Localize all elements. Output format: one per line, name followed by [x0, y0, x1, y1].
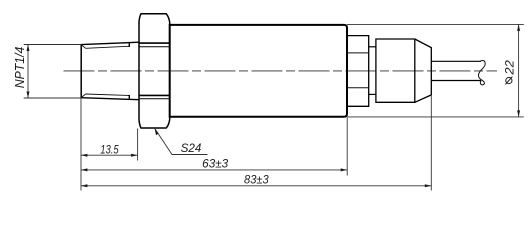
nut facet line lower thick: [139, 94, 170, 96]
gland hex facet lower: [347, 87, 369, 89]
nut facet line lower thin: [139, 98, 170, 100]
gland hex section: [347, 36, 369, 107]
NPT dimension line: [27, 45, 29, 99]
right extension line 63: [346, 118, 348, 176]
cable gland nut: [376, 39, 415, 102]
NPT arrow up: [27, 45, 30, 52]
gland neck top: [369, 46, 376, 48]
diameter symbol slash: [505, 77, 512, 85]
svg-text:S24: S24: [181, 141, 202, 155]
dim line 13.5: [81, 154, 138, 156]
centerline: [64, 70, 498, 72]
right extension line 83: [430, 95, 432, 191]
arrow 13.5 right: [131, 154, 138, 157]
nipple bottom thread end tick: [128, 95, 130, 99]
nipple top thread root: [86, 46, 130, 48]
arrow 63 left: [81, 168, 88, 171]
nipple top chamfer: [81, 45, 85, 49]
arrow 83 left: [81, 184, 88, 187]
dim line 83: [81, 185, 431, 187]
NPT extension line bottom: [24, 97, 81, 99]
hex nut S24: [139, 14, 170, 128]
gland neck bottom: [369, 93, 376, 95]
nipple tip face: [80, 45, 82, 98]
svg-text:83±3: 83±3: [244, 174, 269, 186]
nipple bottom chamfer: [81, 94, 85, 98]
arrow 83 right: [425, 184, 432, 187]
arrow 13.5 left: [81, 154, 88, 157]
right extension line 13.5: [137, 129, 139, 161]
arrow 63 right: [341, 168, 348, 171]
cable top line: [431, 60, 481, 62]
diameter symbol circle: [506, 77, 512, 83]
nut facet line upper thin: [139, 46, 170, 48]
gland cone: [415, 39, 432, 102]
nipple top thread end tick: [128, 43, 130, 47]
nipple bottom crest: [81, 98, 139, 100]
nut facet line upper thick: [139, 42, 170, 44]
nipple top crest: [81, 42, 139, 44]
left shared extension line: [80, 98, 82, 190]
bottom extension line: [347, 116, 524, 118]
svg-text:13.5: 13.5: [100, 145, 119, 157]
NPT extension line top: [24, 44, 81, 46]
arrow Ø22 down: [517, 110, 520, 117]
top extension line: [347, 23, 524, 25]
svg-text:NPT1/4: NPT1/4: [13, 47, 27, 89]
main cylindrical body: [170, 25, 347, 117]
cable bottom line: [431, 80, 481, 82]
arrow Ø22 up: [517, 24, 520, 31]
svg-text:22: 22: [502, 60, 516, 76]
dim line Ø22: [518, 24, 520, 117]
cable break curve: [479, 60, 486, 84]
leader arrowhead: [155, 128, 159, 135]
nipple bottom thread root: [86, 94, 130, 96]
dim line 63: [81, 169, 347, 171]
leader S24: [155, 128, 208, 154]
svg-text:63±3: 63±3: [202, 159, 229, 171]
gland hex facet upper: [347, 52, 369, 54]
NPT arrow down: [27, 92, 30, 99]
